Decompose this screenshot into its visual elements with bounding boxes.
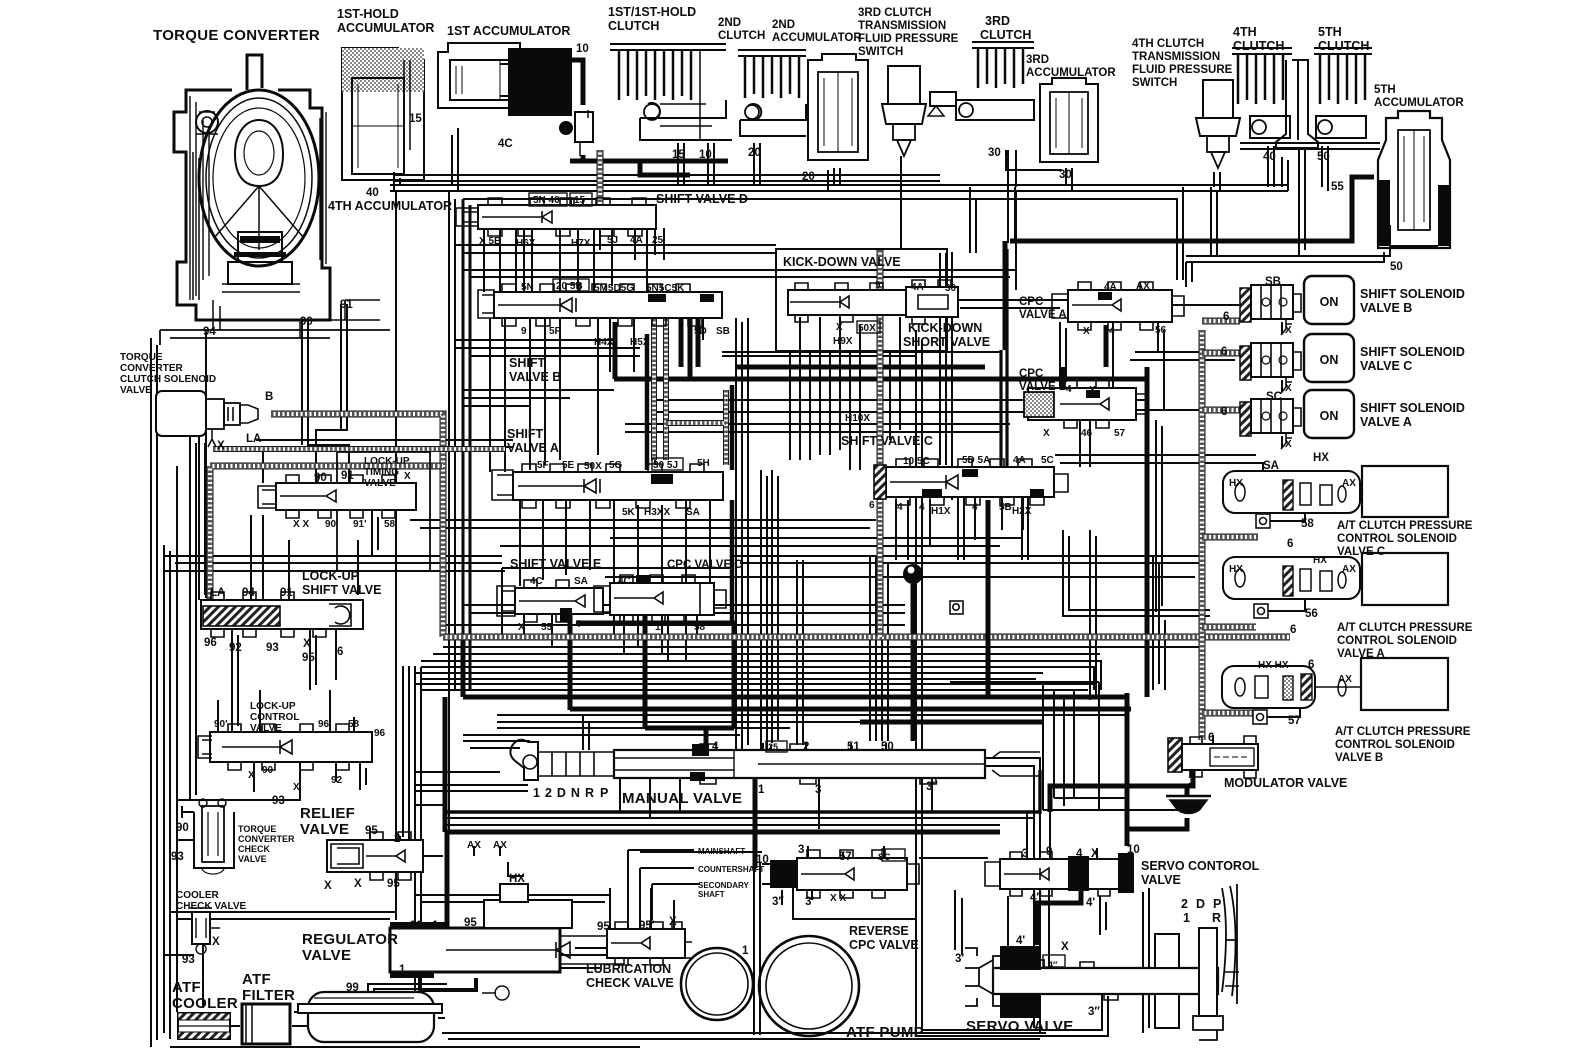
wire mesh y556 long (165, 556, 1205, 577)
svg-text:LOCK-UP: LOCK-UP (250, 701, 296, 712)
svg-text:TORQUE CONVERTER: TORQUE CONVERTER (153, 27, 320, 44)
svg-text:91: 91 (280, 587, 293, 599)
svg-text:LOCK-UP: LOCK-UP (302, 569, 359, 583)
5th accumulator piston (1398, 130, 1430, 230)
svg-text:RELIEF: RELIEF (300, 805, 355, 822)
wire manual valve top ports (763, 743, 886, 750)
svg-text:95: 95 (597, 921, 610, 933)
wire bottom border (442, 1033, 1046, 1039)
svg-text:93: 93 (266, 642, 279, 654)
svg-text:57: 57 (1288, 715, 1301, 727)
svg-text:TORQUE: TORQUE (120, 352, 163, 363)
svg-text:COOLER: COOLER (172, 995, 238, 1012)
thick valve A risers (647, 334, 732, 623)
svg-text:94: 94 (242, 587, 255, 599)
wire valve E CPC C drops (524, 614, 697, 661)
svg-text:5F: 5F (537, 460, 549, 471)
torque converter pump drive (196, 111, 218, 133)
svg-text:VALVE: VALVE (364, 478, 396, 489)
svg-text:REVERSE: REVERSE (849, 924, 909, 938)
svg-text:HX: HX (509, 873, 525, 885)
svg-text:90: 90 (176, 822, 189, 834)
4th-5th clutch pistons (1250, 116, 1366, 138)
wire manual valve left lines (415, 785, 528, 791)
svg-text:A/T CLUTCH PRESSURE: A/T CLUTCH PRESSURE (1335, 726, 1471, 738)
svg-text:X: X (303, 638, 311, 650)
wire TC check valve link (177, 840, 203, 1008)
svg-text:58: 58 (348, 719, 360, 730)
svg-text:TIMING: TIMING (364, 467, 399, 478)
wire hatched solenoid line LA (271, 414, 443, 637)
svg-text:1ST-HOLD: 1ST-HOLD (337, 7, 399, 21)
svg-text:90': 90' (214, 719, 228, 730)
svg-text:AX: AX (1342, 478, 1356, 489)
wire vertical manual bottom ports (583, 715, 680, 818)
svg-text:9: 9 (1046, 846, 1052, 858)
2nd clutch piston (740, 104, 806, 136)
wire 3rd pressure switch lead (900, 156, 902, 250)
svg-text:VALVE A: VALVE A (507, 441, 559, 455)
check ball fitting (903, 564, 923, 584)
wire left mid verticals (199, 437, 205, 600)
wire 50 funnel drop (1299, 150, 1305, 256)
svg-text:X X: X X (293, 519, 309, 530)
wire thick servo 4-prime (1037, 888, 1081, 945)
torque converter outer ring (199, 90, 319, 266)
svg-text:4': 4' (1086, 897, 1095, 909)
svg-text:95': 95' (639, 920, 655, 932)
svg-text:46: 46 (1081, 428, 1093, 439)
svg-text:6: 6 (1287, 538, 1293, 550)
wire manual valve right end (985, 758, 1040, 1033)
svg-text:X: X (1285, 325, 1292, 336)
torque converter check valve (182, 799, 234, 874)
wire hatched supply 6 riser (1199, 330, 1206, 740)
svg-text:CPC: CPC (1019, 296, 1043, 308)
modulator valve (1168, 736, 1258, 778)
svg-text:1: 1 (758, 784, 765, 796)
svg-text:3': 3' (805, 896, 814, 908)
3rd pressure switch (888, 66, 920, 104)
svg-text:58: 58 (1301, 518, 1314, 530)
wire manual to reverse area (819, 778, 932, 829)
svg-text:10 5C: 10 5C (903, 456, 930, 467)
svg-text:10: 10 (699, 149, 712, 161)
torque converter spokes (214, 186, 304, 250)
svg-text:2ND: 2ND (772, 19, 795, 31)
wire x916 long vertical (793, 330, 922, 1036)
ATF pump (681, 936, 859, 1036)
4th pressure switch (1203, 80, 1233, 118)
wire vertical comb valve D-B (516, 199, 664, 292)
wire thick y832 (445, 697, 1000, 832)
svg-text:2: 2 (803, 741, 809, 753)
wire vertical CPC A-B links (1060, 322, 1113, 467)
wire TC 94 line (205, 332, 207, 598)
svg-text:HX HX: HX HX (1258, 660, 1289, 671)
wire right x1158 (1158, 322, 1164, 410)
wire lube outputs mainshaft (628, 850, 700, 929)
svg-text:ACCUMULATOR: ACCUMULATOR (1026, 67, 1116, 79)
svg-text:ATF PUMP: ATF PUMP (846, 1024, 924, 1041)
svg-text:AX: AX (1338, 674, 1352, 685)
svg-text:TRANSMISSION: TRANSMISSION (1132, 51, 1220, 63)
svg-text:55: 55 (1331, 181, 1344, 193)
torque converter base (160, 330, 390, 345)
svg-text:3': 3' (955, 953, 964, 965)
svg-text:VALVE B: VALVE B (1019, 381, 1067, 393)
svg-text:92: 92 (331, 775, 343, 786)
wire SA line (1055, 455, 1263, 472)
wire mesh y684 (415, 684, 1095, 690)
1st accumulator piston (450, 60, 512, 100)
1st-1st-hold clutch piston (640, 100, 732, 140)
wire thick y707 (570, 584, 1131, 741)
svg-text:SA: SA (686, 507, 700, 518)
svg-text:5D: 5D (694, 326, 707, 337)
AT clutch pressure control solenoid valve A unit (1223, 553, 1448, 605)
svg-text:95: 95 (365, 825, 378, 837)
svg-text:50X: 50X (584, 461, 602, 472)
reverse CPC valve (762, 850, 919, 898)
svg-text:6: 6 (1223, 311, 1229, 323)
svg-text:4A: 4A (1013, 455, 1026, 466)
wire 2nd accumulator drop (828, 168, 840, 191)
torque converter shaft lines (193, 152, 380, 338)
1st-hold accumulator shell (342, 48, 424, 180)
svg-text:6: 6 (1290, 624, 1296, 636)
svg-text:SB: SB (1265, 276, 1281, 288)
svg-text:96: 96 (374, 728, 386, 739)
wire solenoid B feed (1186, 262, 1192, 287)
svg-text:X: X (293, 782, 300, 793)
svg-text:5M5D5G: 5M5D5G (594, 283, 634, 294)
svg-text:4: 4 (919, 502, 925, 513)
svg-text:AX: AX (1136, 281, 1150, 292)
servo control valve (985, 852, 1134, 896)
svg-text:96: 96 (204, 637, 217, 649)
svg-text:4C: 4C (498, 138, 513, 150)
svg-text:SHIFT VALVE C: SHIFT VALVE C (841, 434, 933, 448)
svg-text:H5X: H5X (630, 337, 650, 348)
wire regulator to lube (560, 948, 607, 955)
svg-text:A/T CLUTCH PRESSURE: A/T CLUTCH PRESSURE (1337, 622, 1473, 634)
svg-text:ON: ON (1320, 353, 1339, 367)
wire lockup shift valve inputs (251, 515, 289, 600)
wire solenoid drains (1281, 322, 1283, 448)
wire lockup timing to valve A (256, 440, 513, 447)
3rd clutch piston (930, 92, 1034, 120)
svg-text:91': 91' (353, 519, 367, 530)
svg-text:57: 57 (1114, 428, 1126, 439)
wire thick 55 line (1005, 177, 1374, 350)
svg-text:CHECK VALVE: CHECK VALVE (176, 901, 247, 912)
svg-text:VALVE: VALVE (250, 723, 282, 734)
wire CPC A to solenoid B (1172, 304, 1240, 306)
svg-text:VALVE A: VALVE A (1337, 648, 1385, 660)
svg-text:93: 93 (182, 954, 195, 966)
wire reverse CPC links (782, 846, 884, 905)
svg-text:MANUAL VALVE: MANUAL VALVE (622, 790, 742, 807)
wire 3rd clutch 30 (1006, 150, 1072, 191)
wire big right loop (421, 661, 1101, 690)
svg-text:VALVE: VALVE (238, 854, 267, 864)
4th-5th clutch funnel (1276, 60, 1318, 148)
wire nested right loops (1043, 682, 1099, 810)
1st accumulator black chamber (508, 48, 572, 116)
wire modulator 6 (1212, 735, 1214, 744)
wire servo bottom loop (916, 889, 1108, 1036)
svg-text:CLUTCH: CLUTCH (718, 30, 765, 42)
wire mesh bottom left (164, 912, 640, 1047)
wire 4th pressure switch lead (1214, 172, 1220, 191)
svg-text:5N 40: 5N 40 (533, 195, 560, 206)
wire regulator hooks AX AX HX (474, 846, 524, 876)
svg-text:91: 91 (341, 470, 354, 482)
wire vertical comb right of valve B (736, 318, 778, 750)
svg-text:LOCK-UP: LOCK-UP (364, 456, 410, 467)
svg-text:50: 50 (881, 741, 894, 753)
wire hatched 6 branches (1202, 321, 1258, 713)
svg-text:CONVERTER: CONVERTER (238, 834, 295, 844)
wire valve A drops (520, 500, 710, 661)
wire x463 pair (463, 199, 470, 693)
wire mesh extra horizontals upper (463, 270, 1016, 356)
svg-text:X: X (1061, 941, 1069, 953)
svg-text:X X: X X (830, 893, 846, 904)
svg-text:SHIFT: SHIFT (507, 427, 543, 441)
torque converter hub (238, 232, 282, 262)
AT clutch pressure control solenoid valve B unit (1222, 658, 1448, 710)
svg-text:91: 91 (340, 299, 353, 311)
wire solenoid C feed (1130, 352, 1240, 360)
svg-text:X: X (1089, 385, 1096, 396)
wire thick modulator line (1050, 768, 1193, 812)
wire thick y379 main (614, 367, 1147, 379)
svg-text:99: 99 (346, 982, 359, 994)
wire x870 pair (870, 556, 876, 741)
svg-text:3RD CLUTCH: 3RD CLUTCH (858, 7, 931, 19)
svg-text:5D 5A: 5D 5A (962, 455, 990, 466)
svg-text:B: B (265, 391, 273, 403)
svg-text:SHIFT VALVE E: SHIFT VALVE E (510, 557, 601, 571)
svg-text:CONTROL SOLENOID: CONTROL SOLENOID (1335, 739, 1455, 751)
svg-text:H3XX: H3XX (644, 507, 670, 518)
svg-text:TORQUE: TORQUE (238, 824, 276, 834)
svg-text:SB: SB (716, 326, 730, 337)
svg-text:4: 4 (972, 502, 978, 513)
svg-text:3″: 3″ (926, 781, 938, 793)
wire mesh y715 (497, 714, 1127, 716)
svg-text:KICK-DOWN: KICK-DOWN (908, 321, 982, 335)
svg-text:X: X (248, 770, 255, 781)
wire vertical servo area (955, 888, 1149, 1033)
svg-text:15: 15 (409, 113, 422, 125)
label boxes (529, 193, 1065, 967)
shift valve E (497, 580, 603, 622)
svg-text:SHIFT: SHIFT (509, 356, 545, 370)
svg-text:CLUTCH: CLUTCH (608, 19, 659, 33)
svg-text:51: 51 (847, 741, 860, 753)
ATF cooler (178, 1013, 230, 1039)
svg-text:CHECK: CHECK (238, 844, 271, 854)
wire TC 90 91 lines (302, 304, 349, 483)
wire x797 pair (797, 560, 803, 745)
torque converter turbine egg (235, 120, 283, 186)
svg-text:56: 56 (1305, 608, 1318, 620)
wire 58 connector (1262, 505, 1305, 521)
svg-text:4A: 4A (630, 235, 643, 246)
svg-text:90: 90 (300, 316, 313, 328)
wire thick CPC C to manual 4 (576, 614, 734, 748)
svg-text:X: X (324, 880, 332, 892)
svg-text:ACCUMULATOR: ACCUMULATOR (1374, 97, 1464, 109)
shift valve A (492, 464, 723, 508)
wire y812 pair (445, 770, 1040, 812)
svg-text:CONTROL: CONTROL (250, 712, 299, 723)
svg-text:ATF: ATF (172, 979, 201, 996)
svg-text:H1X: H1X (931, 506, 951, 517)
svg-text:AX: AX (1342, 564, 1356, 575)
svg-text:58: 58 (694, 622, 706, 633)
wire x449 trunk (449, 191, 455, 830)
svg-text:95: 95 (387, 878, 400, 890)
svg-text:VALVE C: VALVE C (1337, 546, 1385, 558)
wire servo control ports (1027, 790, 1097, 859)
wire x396 long (396, 191, 421, 1033)
svg-text:3″: 3″ (1088, 1006, 1100, 1018)
lock-up control valve (198, 724, 372, 770)
svg-text:VALVE: VALVE (300, 821, 349, 838)
wire thick manual to reverse 10 (753, 778, 758, 868)
svg-text:10: 10 (756, 854, 769, 866)
svg-text:30: 30 (1059, 169, 1072, 181)
svg-text:95: 95 (464, 917, 477, 929)
svg-text:55: 55 (541, 622, 553, 633)
svg-text:3: 3 (1022, 848, 1028, 860)
svg-text:SHAFT: SHAFT (698, 890, 725, 899)
svg-text:50: 50 (1317, 151, 1330, 163)
svg-text:30: 30 (945, 283, 957, 294)
svg-text:X: X (1043, 428, 1050, 439)
shift valve D (456, 198, 656, 236)
svg-text:1ST ACCUMULATOR: 1ST ACCUMULATOR (447, 24, 570, 38)
svg-text:HX: HX (1313, 452, 1329, 464)
svg-text:2ND: 2ND (718, 17, 741, 29)
svg-text:3: 3 (815, 784, 821, 796)
svg-text:H2X: H2X (1012, 506, 1032, 517)
servo valve (965, 884, 1239, 1040)
1st-hold accumulator rod (404, 60, 410, 150)
svg-text:3: 3 (798, 844, 804, 856)
svg-text:40: 40 (366, 187, 379, 199)
svg-text:H9X: H9X (833, 336, 853, 347)
CPC valve A (1052, 282, 1184, 330)
svg-text:LA: LA (210, 587, 225, 599)
svg-text:VALVE B: VALVE B (1360, 301, 1412, 315)
wire mesh left stubs (455, 340, 614, 406)
ATF filter (242, 1004, 290, 1044)
svg-text:H10X: H10X (845, 413, 870, 424)
relief valve (327, 832, 423, 880)
lock-up timing valve box (337, 452, 430, 571)
svg-text:H7X: H7X (571, 238, 591, 249)
svg-text:SECONDARY: SECONDARY (698, 881, 749, 890)
svg-text:MAINSHAFT: MAINSHAFT (698, 847, 745, 856)
svg-text:9: 9 (521, 326, 527, 337)
svg-text:VALVE: VALVE (120, 385, 152, 396)
wire x882 pair (882, 556, 888, 741)
svg-text:CLUTCH: CLUTCH (980, 28, 1031, 42)
svg-text:X: X (669, 916, 677, 928)
wire thick shift E drop (568, 608, 573, 710)
svg-text:CPC VALVE: CPC VALVE (849, 938, 919, 952)
svg-text:LA: LA (246, 433, 261, 445)
svg-text:3″: 3″ (772, 896, 784, 908)
wire 4C line (452, 128, 458, 191)
wire x1016 (1015, 191, 1017, 290)
wire mesh rail y245 (455, 245, 776, 253)
wire 50 rail to 5th accumulator (1186, 225, 1390, 262)
svg-text:VALVE B: VALVE B (1335, 752, 1383, 764)
svg-text:SHIFT SOLENOID: SHIFT SOLENOID (1360, 345, 1465, 359)
wire relief ports (370, 828, 443, 856)
svg-text:X: X (1285, 439, 1292, 450)
svg-text:4C: 4C (618, 576, 631, 587)
wire kickdown to CPC A (947, 300, 1068, 308)
svg-text:1: 1 (399, 964, 406, 976)
2nd accumulator shell (808, 54, 868, 160)
ATF strainer pan (298, 992, 442, 1042)
svg-text:SHIFT VALVE D: SHIFT VALVE D (656, 192, 748, 206)
wire 10 feed thick (570, 60, 583, 105)
svg-text:90: 90 (314, 472, 327, 484)
svg-text:1: 1 (655, 622, 661, 633)
svg-text:94: 94 (203, 326, 216, 338)
wire shift C risers (896, 498, 1023, 560)
svg-text:5B: 5B (999, 502, 1012, 513)
svg-text:CONTROL SOLENOID: CONTROL SOLENOID (1337, 533, 1457, 545)
wire hatched lockup border (210, 466, 443, 613)
svg-text:SA: SA (1263, 460, 1279, 472)
wire vertical x958 (958, 187, 976, 560)
svg-text:SWITCH: SWITCH (1132, 77, 1177, 89)
AT clutch pressure control solenoid valve C unit (1223, 466, 1448, 517)
svg-text:AX: AX (467, 840, 481, 851)
svg-text:A/T CLUTCH PRESSURE: A/T CLUTCH PRESSURE (1337, 520, 1473, 532)
wire lockup control inputs (218, 690, 354, 732)
svg-text:SERVO VALVE: SERVO VALVE (966, 1018, 1074, 1035)
1st-1st-hold clutch plates (610, 44, 726, 50)
wire x940 pair (940, 253, 946, 465)
svg-text:30: 30 (988, 147, 1001, 159)
svg-text:X: X (836, 322, 843, 333)
svg-text:4″: 4″ (1048, 960, 1058, 970)
svg-text:92: 92 (410, 920, 423, 932)
svg-text:SA: SA (574, 576, 588, 587)
wire kickdown drops (800, 317, 900, 470)
svg-text:X 5B: X 5B (479, 236, 501, 247)
5th clutch plates (1314, 48, 1372, 54)
wire lockup control outputs (177, 762, 336, 800)
svg-text:P: P (600, 786, 608, 800)
shift solenoid valve A (1240, 390, 1354, 449)
svg-text:4TH CLUTCH: 4TH CLUTCH (1132, 38, 1204, 50)
svg-text:CONVERTER: CONVERTER (120, 363, 184, 374)
wire hatched valve D 15 riser (597, 150, 604, 229)
5th accumulator shell (1378, 111, 1450, 248)
svg-text:FLUID PRESSURE: FLUID PRESSURE (1132, 64, 1233, 76)
